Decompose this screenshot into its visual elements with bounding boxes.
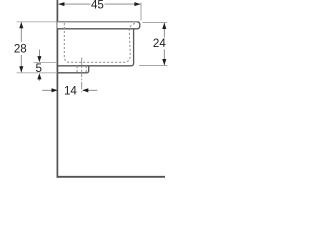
slab top edge xyxy=(57,21,137,23)
svg-text:14: 14 xyxy=(64,84,77,97)
floor xyxy=(57,176,165,178)
dim 14 right leader and arrow xyxy=(88,89,98,91)
dim 24 bottom arrow xyxy=(162,59,166,65)
drain centerline xyxy=(81,58,83,93)
dim 28 line xyxy=(20,22,22,42)
dim 5 lower leader and arrow xyxy=(38,79,40,81)
dim 28 top arrow xyxy=(19,22,23,28)
dim 24 extension line bottom xyxy=(139,65,168,67)
dim 24 top arrow xyxy=(162,23,166,29)
svg-text:45: 45 xyxy=(91,0,104,11)
svg-text:28: 28 xyxy=(14,42,27,55)
svg-text:24: 24 xyxy=(153,37,166,50)
dim 45 extension line right xyxy=(140,3,142,21)
bowl hidden outline xyxy=(64,23,135,62)
dim 28 extension line top xyxy=(17,21,57,23)
drain hidden edge left xyxy=(76,66,78,72)
countertop slab xyxy=(57,22,139,29)
dim 45 line xyxy=(58,3,90,5)
dim 28 bottom arrow xyxy=(19,66,23,72)
dim 28/5 extension line bottom xyxy=(17,72,58,74)
dim 14 left leader and arrow xyxy=(42,89,52,91)
dim 45 left arrow xyxy=(58,2,64,6)
dim 5 upper leader and arrow xyxy=(38,50,40,58)
basin front face and underside xyxy=(57,29,133,66)
wall xyxy=(56,0,58,178)
svg-text:5: 5 xyxy=(35,62,41,75)
dim 45 right arrow xyxy=(134,2,140,6)
dim 5 extension line top xyxy=(34,62,58,64)
dim 24 line xyxy=(163,23,165,38)
drain hidden edge right xyxy=(85,66,87,72)
trap housing xyxy=(57,66,88,73)
dim 24 extension line top xyxy=(143,21,168,23)
